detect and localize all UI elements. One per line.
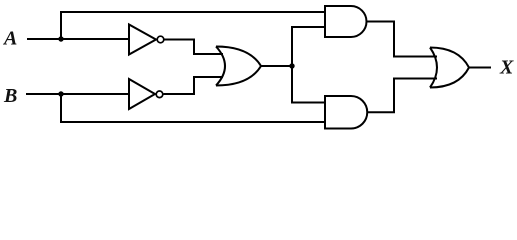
wire U1 output to OR gate U3 top input [165, 40, 224, 55]
svg-text:A: A [2, 28, 17, 50]
wire junction down to AND gate U5 upper input [292, 66, 325, 103]
node U3 output junction [289, 63, 294, 68]
wire B branch down to bottom rail [61, 94, 325, 122]
wire B input [26, 93, 130, 95]
svg-text:X: X [499, 57, 514, 79]
wire A input [27, 38, 130, 40]
wire junction up to AND gate U4 lower input [292, 27, 325, 66]
wire U4 output to OR gate U6 top input [367, 22, 438, 57]
inverter U1 (NOT A) [129, 25, 164, 55]
and-gate U4 (top) [325, 6, 366, 37]
wire U2 output to OR gate U3 bottom input [164, 77, 224, 94]
node B junction [58, 91, 63, 96]
svg-text:B: B [3, 85, 17, 107]
wire U5 output to OR gate U6 bottom input [367, 79, 437, 113]
wire U6 output [469, 67, 491, 69]
wire A branch up to top rail [61, 12, 325, 39]
wire U3 output [260, 65, 292, 67]
or-gate U3 [216, 47, 261, 86]
and-gate U5 (bottom) [325, 96, 367, 129]
inverter U2 (NOT B) [129, 79, 163, 109]
or-gate U6 (output OR) [430, 48, 469, 88]
node A junction [58, 36, 63, 41]
